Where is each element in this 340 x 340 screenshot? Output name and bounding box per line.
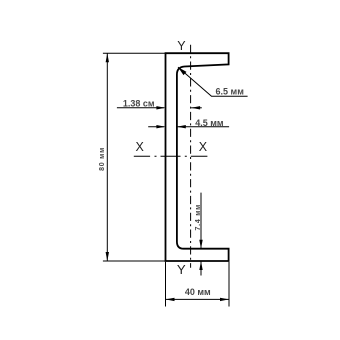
svg-text:40 мм: 40 мм [185, 287, 211, 297]
channel profile outline [166, 53, 229, 261]
svg-text:6.5 мм: 6.5 мм [216, 87, 245, 97]
arrow left counterpart 1.38 [191, 106, 200, 109]
svg-text:7.4 мм: 7.4 мм [195, 204, 202, 231]
svg-text:4.5 мм: 4.5 мм [195, 118, 224, 128]
Y centroid axis (dash-dot vertical) [190, 45, 192, 268]
arrow left 40 mm [166, 298, 175, 301]
dimension 80 mm line [106, 53, 108, 261]
leader 6.5 mm arrow [178, 67, 187, 75]
arrow right 40 mm [220, 298, 229, 301]
dimension 7.4 mm lower line [200, 261, 202, 276]
svg-text:X: X [199, 140, 208, 154]
dimension 4.5 mm line left [148, 126, 164, 128]
arrow right 4.5 [156, 125, 165, 128]
extension line right (40 mm) [228, 262, 230, 307]
svg-text:1.38 см: 1.38 см [123, 99, 155, 109]
arrow up 7.4 [199, 261, 202, 270]
svg-text:80 мм: 80 мм [99, 147, 106, 171]
dimension 1.38 cm line left [117, 107, 164, 109]
arrow down 80 mm [106, 252, 109, 261]
extension line left (40 mm) [165, 262, 167, 307]
svg-text:Y: Y [177, 39, 186, 53]
svg-text:Y: Y [177, 262, 186, 277]
arrow down 7.4 [199, 240, 202, 249]
dimension 40 mm line [166, 298, 230, 300]
dimension 1.38 cm tail right [191, 107, 202, 109]
dimension 4.5 mm tail right [177, 126, 229, 128]
arrow left 4.5 [177, 125, 186, 128]
arrow up 80 mm [106, 53, 109, 62]
arrow right 1.38 [156, 106, 165, 109]
extension line bottom (80 mm) [103, 260, 166, 262]
extension line top (80 mm) [103, 52, 166, 54]
dimension 7.4 mm upper line [200, 193, 202, 249]
X centroid axis (dash-dot horizontal) [134, 155, 208, 157]
svg-text:X: X [136, 140, 145, 154]
leader 6.5 mm line [178, 67, 248, 96]
